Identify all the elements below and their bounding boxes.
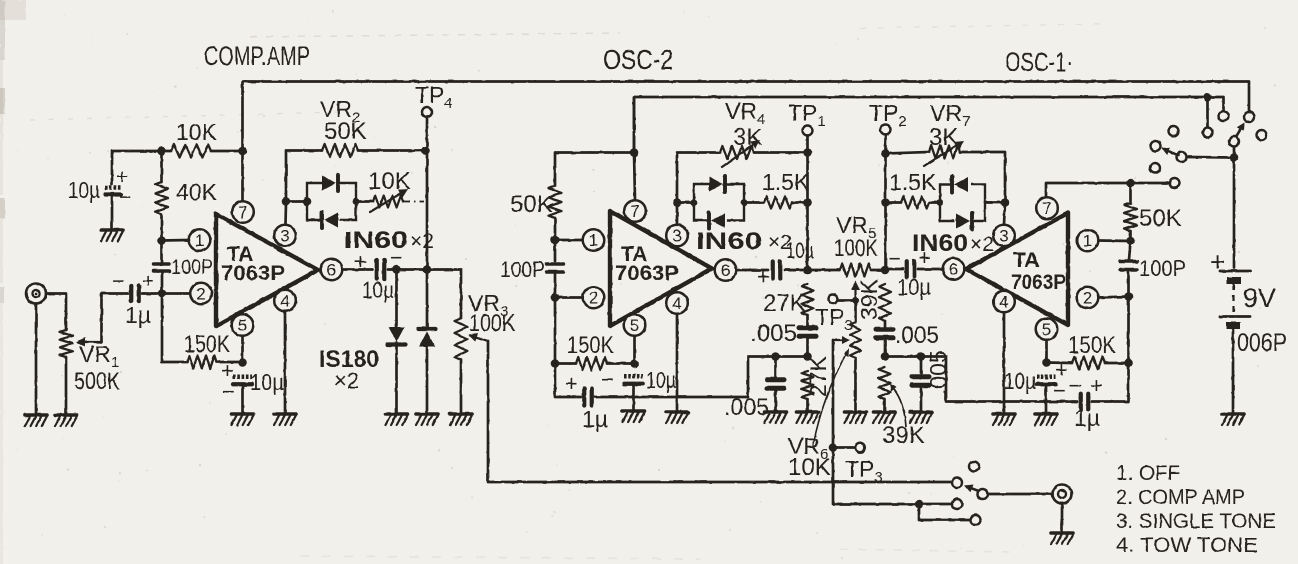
wire 100P to pin1 node xyxy=(160,241,163,265)
wire diode box left lead xyxy=(286,200,307,203)
svg-text:4: 4 xyxy=(280,292,289,311)
ground pin5 comp xyxy=(232,414,254,425)
svg-text:3K: 3K xyxy=(733,124,762,151)
pin 1 of U3 xyxy=(1077,230,1099,252)
wire 1.5K to diode box3 xyxy=(929,201,940,204)
svg-text:27K: 27K xyxy=(763,290,806,317)
diode box D5 D6 IN60 outline xyxy=(694,184,709,203)
svg-text:.005: .005 xyxy=(724,394,769,421)
svg-text:3. SINGLE TONE: 3. SINGLE TONE xyxy=(1116,510,1276,533)
switch contact S3 xyxy=(1203,128,1213,138)
test point TP4 xyxy=(422,107,432,117)
wire pin5 cap to ground osc2 xyxy=(632,384,635,409)
wire top supply bus (V+) from COMP.AMP to switch xyxy=(243,82,1250,202)
wire to 150K comp xyxy=(162,361,187,364)
svg-text:10µ: 10µ xyxy=(786,238,814,263)
potentiometer VR2 50K body xyxy=(322,144,358,157)
node pin2 input node xyxy=(158,289,167,298)
wire pin5 down xyxy=(241,336,244,362)
node pin1 node xyxy=(157,236,166,245)
wire diode box2 right xyxy=(744,201,764,204)
resistor 1.5K osc1 body xyxy=(901,197,929,209)
wire pin2 osc1 xyxy=(1098,297,1128,298)
ground 005d xyxy=(910,412,932,423)
wire 39K lower to ground xyxy=(883,399,886,410)
svg-text:1.5K: 1.5K xyxy=(889,169,937,195)
svg-text:1: 1 xyxy=(1083,232,1092,251)
wire battery to ground xyxy=(1232,329,1235,412)
pin 4 of U3 xyxy=(993,291,1015,313)
ground jack2 xyxy=(1051,533,1073,544)
svg-text:006P: 006P xyxy=(1237,329,1287,357)
svg-text:−: − xyxy=(1053,378,1066,403)
wire jack sleeve to ground xyxy=(35,304,38,414)
node rail at 39K chain xyxy=(881,352,890,361)
diode D2 IN60 bottom xyxy=(324,213,338,228)
switch contact S8 xyxy=(1150,163,1160,173)
diode D8 IN60 bottom osc1 xyxy=(956,214,970,229)
svg-text:7063P: 7063P xyxy=(221,262,285,285)
svg-text:TA: TA xyxy=(1013,249,1039,272)
pin 6 of U1 xyxy=(321,259,343,281)
potentiometer VR5 100K body xyxy=(840,264,871,277)
svg-text:OSC-2: OSC-2 xyxy=(603,44,673,75)
ground 27K lower xyxy=(797,412,819,423)
wire 1.5K to TP1 line xyxy=(792,201,808,204)
svg-text:3K: 3K xyxy=(929,124,958,151)
svg-text:1µ: 1µ xyxy=(582,406,608,432)
ground 005b xyxy=(765,412,787,423)
node TP4 and diode B tap xyxy=(423,265,432,274)
wire 39K chain xyxy=(884,321,887,327)
arrow of VR4 xyxy=(722,145,753,167)
svg-text:1µ: 1µ xyxy=(1074,405,1100,431)
svg-text:50K: 50K xyxy=(324,118,367,145)
wire pin5 down osc2 xyxy=(633,336,636,364)
capacitor C 10u pin5 osc2 xyxy=(624,374,643,379)
ground 39K lower xyxy=(874,412,896,423)
wire drop from bus2 to switch contact xyxy=(1206,98,1209,128)
wire 005b drop xyxy=(774,357,777,380)
resistor 39K lower body xyxy=(879,367,891,399)
pin 3 of U1 xyxy=(274,225,296,247)
switch contact S4 xyxy=(1257,130,1267,140)
svg-text:10µ: 10µ xyxy=(1004,368,1036,394)
wire TP2 down to osc1 in node xyxy=(884,135,887,271)
pin 7 of U2 xyxy=(624,200,646,222)
pin 4 of U1 xyxy=(274,290,296,312)
resistor 39K upper body xyxy=(879,284,891,321)
wire VR1 bottom to ground xyxy=(65,357,68,413)
wire branch to P4 xyxy=(919,504,970,520)
svg-text:+: + xyxy=(757,264,770,289)
svg-text:2: 2 xyxy=(196,285,205,304)
wire VR7 right to pin3 line xyxy=(960,152,1005,203)
svg-text:6: 6 xyxy=(327,261,336,280)
diode D7 IN60 top osc1 xyxy=(954,177,968,192)
node pin1 node osc1 xyxy=(1126,237,1135,246)
resistor 150K osc1 body xyxy=(1072,357,1105,370)
selector wiper arm xyxy=(972,488,980,491)
svg-text:+: + xyxy=(565,371,578,396)
wire VR6 wiper down to selector xyxy=(833,340,919,504)
wire pin2 osc2 xyxy=(555,296,583,299)
wire diode box3 right xyxy=(985,201,1005,204)
wire jack2 to ground xyxy=(1061,504,1064,532)
wire pin5 cap to ground osc1 xyxy=(1045,385,1048,413)
svg-text:1. OFF: 1. OFF xyxy=(1116,462,1180,485)
switch contact S5 xyxy=(1169,126,1179,136)
output jack J2 xyxy=(1053,485,1072,504)
node rail at 27K chain xyxy=(803,352,812,361)
ground VR1 xyxy=(55,415,77,426)
svg-text:4: 4 xyxy=(672,294,681,313)
op-amp U3 TA7063P xyxy=(966,213,1068,325)
pin 1 of U1 xyxy=(189,229,211,251)
ground diode A xyxy=(386,414,408,425)
svg-text:39K: 39K xyxy=(856,278,882,320)
wire VR5 right to node xyxy=(871,269,885,272)
switch contact P2 COMP xyxy=(952,478,962,488)
wire VR6 to ground xyxy=(854,358,857,410)
node osc1 in node xyxy=(881,266,890,275)
switch contact P3 SINGLE xyxy=(952,499,962,509)
test point TP3 upper xyxy=(829,295,838,304)
wire pin5 cap to ground xyxy=(241,385,244,413)
pin 2 of U3 xyxy=(1077,287,1099,309)
node TP3 lower tap xyxy=(829,443,838,452)
wire VR3 bottom to ground xyxy=(460,360,463,412)
svg-text:6: 6 xyxy=(949,260,958,279)
svg-text:5: 5 xyxy=(630,316,639,335)
potentiometer VR1 500K body xyxy=(60,330,73,357)
wire pin6 osc2 to cap xyxy=(737,269,769,272)
node pin5 node comp xyxy=(238,358,247,367)
wire pin1 node to 100P osc2 xyxy=(554,240,557,261)
VR1 wiper arrow and wire to C 1u xyxy=(85,341,102,343)
svg-text:+: + xyxy=(354,249,367,274)
node pin2 node osc2 xyxy=(551,293,560,302)
pin 5 of U2 xyxy=(624,314,646,336)
svg-text:40K: 40K xyxy=(176,179,218,205)
node pin5 node osc1 xyxy=(1042,358,1051,367)
wire 1u to pin2 node xyxy=(142,292,190,295)
svg-text:9V: 9V xyxy=(1243,283,1276,313)
svg-text:10µ: 10µ xyxy=(646,367,676,393)
wire dash link 10K var to TP4 line xyxy=(404,201,424,203)
wire VR2 right to TP4 line xyxy=(358,149,426,152)
resistor 50K osc1 body xyxy=(1124,203,1137,231)
node selector branch xyxy=(915,500,924,509)
svg-text:−: − xyxy=(119,186,131,209)
svg-text:×2: ×2 xyxy=(410,230,434,253)
svg-text:.005: .005 xyxy=(925,350,951,395)
pin 2 of U1 xyxy=(190,283,212,305)
wire S7 to battery rail xyxy=(1187,156,1234,159)
wire pin2 node down osc2 xyxy=(554,298,557,364)
capacitor 100P osc2 plates xyxy=(547,262,564,265)
svg-text:−: − xyxy=(222,379,235,404)
node 50K top osc1 xyxy=(1126,179,1135,188)
svg-text:.005: .005 xyxy=(895,322,939,349)
wire cap to pin6 osc1 xyxy=(918,268,943,271)
pin 6 of U3 xyxy=(943,258,965,280)
wire bypass cap to ground xyxy=(111,194,114,228)
switch contact P1 OFF xyxy=(969,462,979,472)
wire diode box2 left lead xyxy=(677,201,694,204)
node battery rail top xyxy=(1230,153,1239,162)
capacitor C .005 b plates xyxy=(767,377,784,382)
node pin2 node osc1 xyxy=(1124,292,1133,301)
potentiometer VR7 3K body xyxy=(929,146,960,159)
svg-text:500K: 500K xyxy=(74,368,120,395)
wire 40K top to 10K node xyxy=(160,151,163,182)
svg-text:5: 5 xyxy=(238,316,247,335)
wire pin1 node to 100P osc1 xyxy=(1129,241,1131,260)
node diode box3 left xyxy=(937,199,944,206)
wire TP4 down to output wire xyxy=(426,117,429,270)
ground VR3 xyxy=(450,414,472,425)
wire VR3 wiper long run to selector xyxy=(488,341,952,482)
potentiometer VR4 3K body xyxy=(720,146,754,159)
node 10K left node xyxy=(157,147,166,156)
capacitor 100P comp plates xyxy=(154,262,170,265)
wire top node to pin7 osc2 xyxy=(634,153,635,201)
capacitor 100P osc1 plates xyxy=(1120,260,1137,263)
wire 150K left lead osc1 xyxy=(1047,361,1073,364)
variable resistor 10K body xyxy=(373,196,403,208)
node on V+ vertical xyxy=(238,147,247,156)
pin 4 of U2 xyxy=(666,292,688,314)
svg-text:4: 4 xyxy=(999,293,1008,312)
resistor 40K body xyxy=(155,182,168,214)
switch wiper pivot out xyxy=(978,489,988,499)
svg-text:1: 1 xyxy=(589,231,598,250)
switch contact S2 xyxy=(1244,112,1254,122)
capacitor C 1u input plates xyxy=(129,286,133,301)
node diode box2 right xyxy=(741,199,748,206)
wire 1.5K left lead osc1 xyxy=(886,201,902,204)
svg-text:IN60: IN60 xyxy=(912,230,968,257)
switch contact S7 xyxy=(1177,152,1187,162)
wire jack tip to VR1 top xyxy=(46,294,66,331)
svg-text:150K: 150K xyxy=(567,332,614,359)
svg-text:−: − xyxy=(601,367,614,392)
op-amp U1 TA7063P xyxy=(216,214,318,326)
test point TP1 xyxy=(803,126,813,136)
switch contact SF wiper pivot xyxy=(1229,137,1239,147)
node diode box right xyxy=(353,198,360,205)
svg-text:1.5K: 1.5K xyxy=(762,169,810,195)
ground pin4 comp xyxy=(274,414,296,425)
pin 7 of U3 xyxy=(1036,197,1058,219)
ground pin4 osc2 xyxy=(666,412,688,423)
wire VR4 right to TP1 line xyxy=(754,151,808,154)
diode D3 IS180 A xyxy=(389,327,405,342)
wire pin2 node up to 100P xyxy=(161,271,164,294)
node diode box2 left xyxy=(691,199,698,206)
wire cap to VR3 corner xyxy=(388,270,461,319)
switch contact S1 xyxy=(1219,111,1229,121)
pin 5 of U1 xyxy=(232,314,254,336)
wire SF to rail node xyxy=(1233,147,1236,158)
wire 50K to pin1 node osc2 xyxy=(554,218,557,240)
wire TP1 down to output node xyxy=(806,136,809,271)
wire pin1 to node xyxy=(162,239,190,242)
node feedback left osc2 xyxy=(673,198,682,207)
wire 10K node left to bypass cap xyxy=(112,151,162,184)
svg-text:3: 3 xyxy=(999,227,1008,246)
pin 3 of U2 xyxy=(666,225,688,247)
svg-text:5: 5 xyxy=(1042,320,1051,339)
wire feedback node up to VR2 xyxy=(286,151,322,202)
wire pin2 node down osc1 xyxy=(1127,297,1130,364)
resistor 27K lower body xyxy=(802,371,814,399)
svg-text:.005: .005 xyxy=(750,320,797,347)
svg-text:+: + xyxy=(1210,247,1225,277)
pin 5 of U3 xyxy=(1036,318,1058,340)
arrow of VR7 xyxy=(924,146,956,166)
node 150K left osc2 xyxy=(551,359,560,368)
wire cap005a to rail xyxy=(806,337,809,357)
wire diode box right to 10K var xyxy=(356,200,373,203)
node pin1 node osc2 xyxy=(551,236,560,245)
ground jack xyxy=(25,415,47,426)
svg-text:150K: 150K xyxy=(184,331,230,358)
capacitor C 10u pin5 osc1 xyxy=(1037,374,1056,379)
resistor 1.5K osc2 body xyxy=(764,197,792,209)
ground pin5 osc2 xyxy=(623,411,645,422)
pin 2 of U2 xyxy=(583,287,605,309)
capacitor C 10u osc2 out plates xyxy=(771,262,775,279)
wire to TP3 lower xyxy=(833,446,855,449)
wire 100P to pin2 node osc2 xyxy=(554,272,557,298)
wire diode B to ground xyxy=(426,346,429,412)
svg-text:150K: 150K xyxy=(1068,332,1116,359)
ground bypass cap xyxy=(101,230,123,241)
svg-text:100K: 100K xyxy=(469,310,515,337)
resistor 27K upper body xyxy=(802,284,814,315)
resistor 150K comp body xyxy=(187,356,217,369)
capacitor C 1u osc1 plates xyxy=(1079,394,1083,410)
VR6 wiper arrow xyxy=(833,339,842,341)
svg-text:7: 7 xyxy=(238,203,247,222)
node osc2 out node xyxy=(803,266,812,275)
wire diode B drop xyxy=(426,270,429,330)
resistor 50K osc2 body xyxy=(549,186,562,218)
switch wiper arm upper right xyxy=(1235,129,1240,138)
wire pin4 osc1 to ground xyxy=(1003,312,1006,412)
svg-text:7063P: 7063P xyxy=(1011,271,1066,294)
wire TP3 to wiper node xyxy=(838,299,856,302)
svg-text:−: − xyxy=(112,270,124,293)
ground diode B xyxy=(416,414,438,425)
capacitor C 10u output plates xyxy=(375,260,379,279)
diode D6 IN60 bottom osc2 xyxy=(711,213,725,228)
capacitor C 10u pin5 comp xyxy=(233,374,252,379)
node pin5 node osc2 xyxy=(630,359,639,368)
diode D5 IN60 top osc2 xyxy=(709,177,723,192)
wire pin1 osc1 xyxy=(1098,239,1130,242)
wire pin5 down osc1 xyxy=(1045,340,1048,363)
wire rail down to battery xyxy=(1233,158,1236,269)
svg-text:10K: 10K xyxy=(176,119,218,145)
diode D1 IN60 top xyxy=(322,176,336,191)
wire 1u branch osc2 xyxy=(555,364,581,398)
wire pin3 up osc2 xyxy=(676,204,679,225)
wire pin1 osc2 xyxy=(555,239,583,242)
svg-text:COMP.AMP: COMP.AMP xyxy=(204,41,310,71)
wire 27K lower to ground xyxy=(806,399,809,410)
svg-text:10K: 10K xyxy=(368,168,411,195)
ground pin4 osc1 xyxy=(993,414,1015,425)
node VR7 left xyxy=(881,149,890,158)
ground pin5 osc1 xyxy=(1035,414,1057,425)
wire pin4 comp to ground xyxy=(284,311,287,412)
node diode box3 right at pin3 line xyxy=(1001,198,1010,207)
svg-text:OSC-1·: OSC-1· xyxy=(1005,47,1073,77)
capacitor C 1u osc2 plates xyxy=(582,389,586,406)
wire diode A drop xyxy=(395,270,398,328)
wire 10K to V+ vertical xyxy=(211,150,243,153)
svg-text:10µ: 10µ xyxy=(68,177,100,203)
wire 1u to tone network xyxy=(595,357,808,398)
node diode box left xyxy=(303,197,312,206)
switch contact S6 xyxy=(1151,141,1161,151)
pin 1 of U2 xyxy=(583,229,605,251)
svg-text:50K: 50K xyxy=(510,191,553,218)
wire pin4 osc2 to ground xyxy=(676,314,679,410)
svg-text:1: 1 xyxy=(195,231,204,250)
svg-text:IN60: IN60 xyxy=(696,228,762,255)
node 1.5K left osc1 xyxy=(881,198,890,207)
resistor 10K body xyxy=(171,145,211,158)
test point TP3 lower xyxy=(855,443,865,453)
svg-text:7: 7 xyxy=(630,202,639,221)
wire to 150K osc2 xyxy=(555,362,576,365)
node 1.5K right at TP1 line xyxy=(803,198,812,207)
capacitor C .005 d plates xyxy=(912,374,929,379)
pin 3 of U3 xyxy=(993,225,1015,247)
op-amp U2 TA7063P xyxy=(610,211,712,326)
node bus2 junction xyxy=(1203,93,1212,102)
pin 6 of U2 xyxy=(715,259,737,281)
svg-text:−: − xyxy=(888,246,901,271)
svg-text:100P: 100P xyxy=(171,256,213,279)
input jack J1 xyxy=(26,284,46,304)
svg-text:+: + xyxy=(1090,373,1103,398)
capacitor C 10u bypass electrolytic xyxy=(105,185,121,190)
node 150K right osc1 xyxy=(1124,359,1133,368)
potentiometer VR3 100K body xyxy=(455,318,468,360)
svg-text:×2: ×2 xyxy=(970,233,994,256)
svg-text:3: 3 xyxy=(280,227,289,246)
svg-text:10K: 10K xyxy=(788,454,831,481)
wire pin6 to coupling cap xyxy=(343,268,373,271)
wire wiper node to VR6 xyxy=(854,301,857,323)
capacitor C .005 c plates xyxy=(876,327,893,332)
wire OSC-2/OSC-1 supply bus xyxy=(634,97,1224,153)
svg-text:100P: 100P xyxy=(1139,256,1186,281)
arrow of 10K variable xyxy=(370,194,400,212)
svg-text:2: 2 xyxy=(589,289,598,308)
wire 50K top lead osc1 xyxy=(1129,183,1132,203)
node rail at 005b xyxy=(771,352,780,361)
wire 150K to pin5 node xyxy=(217,361,243,364)
diode D4 IS180 B xyxy=(418,327,436,331)
node feedback left node xyxy=(282,197,291,206)
node rail at 005d xyxy=(917,352,926,361)
